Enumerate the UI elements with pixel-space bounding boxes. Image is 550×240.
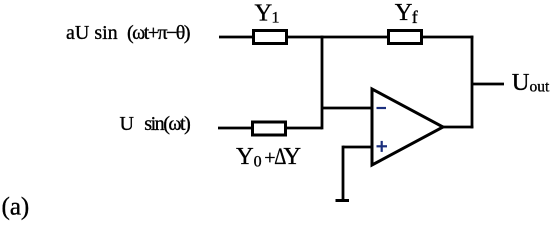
wire feedback vertical <box>471 36 474 129</box>
svg-text:0: 0 <box>254 154 262 171</box>
op-amp U1 <box>372 89 443 165</box>
wire to ground <box>342 146 345 199</box>
wire Yf to feedback corner <box>422 36 473 39</box>
input label aU sin(wt+pi-theta) <box>66 22 191 44</box>
resistor Yf <box>389 31 422 44</box>
wire inverting input <box>322 107 372 110</box>
wire Y1 to Yf through summing node <box>287 36 388 39</box>
svg-text:Y: Y <box>236 143 254 170</box>
svg-text:(ωt+π−θ): (ωt+π−θ) <box>127 22 191 44</box>
wire output stub <box>472 83 504 86</box>
wire Y0 to summing node <box>286 127 322 130</box>
svg-text:f: f <box>412 7 418 27</box>
svg-text:1: 1 <box>272 10 280 27</box>
wire noninverting input <box>343 146 372 149</box>
resistor Y0+dY <box>253 122 286 135</box>
ground <box>336 199 350 202</box>
svg-text:Y: Y <box>395 0 413 26</box>
resistor Y1 <box>254 31 287 44</box>
svg-text:out: out <box>530 78 550 95</box>
svg-text:U: U <box>120 113 135 135</box>
wire input2 to Y0 <box>218 127 252 130</box>
wire op-amp output <box>443 126 473 129</box>
input label U sin(wt) <box>120 113 191 135</box>
svg-text:Y: Y <box>255 0 273 27</box>
svg-text:U: U <box>512 69 530 96</box>
op-amp plus pin <box>377 141 388 152</box>
svg-text:aU sin: aU sin <box>66 22 118 44</box>
wire input1 to Y1 <box>219 36 253 39</box>
label Y1 <box>255 0 280 27</box>
label Y0+dY <box>236 143 301 171</box>
label Uout <box>512 69 550 96</box>
svg-text:Y: Y <box>283 143 301 170</box>
wire summing node vertical <box>321 36 324 130</box>
svg-text:(a): (a) <box>2 194 30 221</box>
op-amp minus pin <box>377 107 387 109</box>
svg-text:sin(ωt): sin(ωt) <box>144 113 191 135</box>
label Yf <box>395 0 418 27</box>
